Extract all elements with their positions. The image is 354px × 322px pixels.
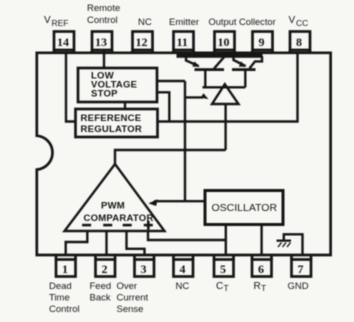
pin 3 bbox=[135, 254, 155, 277]
pin 12 bbox=[133, 32, 153, 54]
svg-text:Over: Over bbox=[117, 281, 138, 292]
svg-text:Dead: Dead bbox=[49, 281, 72, 292]
pin 5 bbox=[214, 254, 234, 277]
svg-text:Time: Time bbox=[49, 293, 70, 304]
svg-text:2: 2 bbox=[102, 262, 108, 276]
svg-text:11: 11 bbox=[177, 35, 188, 49]
pin 4 bbox=[174, 254, 194, 277]
svg-text:10: 10 bbox=[218, 35, 230, 49]
wire comparator plus to CT line bbox=[148, 231, 226, 240]
wire comparator output to driver bbox=[115, 150, 226, 165]
wire VCC pin8 to reference bbox=[158, 52, 298, 122]
svg-text:Output Collector: Output Collector bbox=[209, 17, 276, 27]
wire arrow into driver bbox=[185, 93, 209, 99]
pin 7 bbox=[292, 254, 312, 277]
PWM comparator U1 triangle bbox=[65, 164, 165, 231]
svg-text:T: T bbox=[261, 283, 266, 293]
transistor Q2 emitter lead bbox=[234, 55, 247, 67]
minus mark input 3 bbox=[123, 224, 132, 227]
pin 14 bbox=[54, 32, 74, 54]
svg-text:V: V bbox=[289, 15, 296, 26]
wire bases line bbox=[203, 86, 246, 88]
svg-text:Control: Control bbox=[49, 304, 80, 315]
svg-text:NC: NC bbox=[176, 281, 190, 292]
svg-text:NC: NC bbox=[138, 17, 152, 28]
wire LVS out lower bbox=[157, 92, 169, 121]
transistor Q1 emitter lead bbox=[186, 55, 200, 67]
LOW VOLTAGE STOP box U2 bbox=[78, 68, 157, 102]
wire comparator minus1 to pin 1 bbox=[66, 231, 88, 255]
pin 6 bbox=[252, 254, 272, 277]
svg-text:Control: Control bbox=[87, 15, 118, 26]
wire LVS out upper to node bus bbox=[157, 80, 185, 82]
svg-text:Current: Current bbox=[117, 293, 149, 304]
wire driver output up (apex through bases line) bbox=[224, 84, 226, 87]
svg-text:R: R bbox=[254, 281, 261, 292]
svg-text:Emitter: Emitter bbox=[169, 17, 199, 28]
svg-text:14: 14 bbox=[57, 35, 69, 49]
svg-text:9: 9 bbox=[259, 35, 265, 49]
minus mark input 2 bbox=[103, 224, 112, 227]
svg-text:6: 6 bbox=[258, 262, 264, 276]
svg-text:T: T bbox=[224, 283, 229, 293]
driver amplifier U5 triangle bbox=[212, 84, 239, 104]
transistor Q2 base wire down bbox=[244, 71, 246, 88]
OSCILLATOR box U4 bbox=[205, 191, 283, 225]
svg-text:CC: CC bbox=[296, 18, 308, 28]
svg-text:4: 4 bbox=[180, 262, 186, 276]
label CT bbox=[216, 281, 229, 293]
pin 8 bbox=[290, 32, 310, 54]
svg-text:REGULATOR: REGULATOR bbox=[81, 124, 143, 135]
svg-text:3: 3 bbox=[141, 262, 147, 276]
wire pin13 to LVS bbox=[103, 50, 105, 68]
transistor Q2 base bar bbox=[232, 68, 256, 71]
wire pin14 down bbox=[66, 52, 76, 122]
svg-text:Remote: Remote bbox=[87, 3, 120, 14]
wire comparator minus2 to pin 2 bbox=[105, 231, 107, 255]
transistor Q1 collector lead bbox=[214, 56, 225, 69]
wire driver input down bbox=[224, 104, 226, 150]
wire oscillator CT to pin 5 bbox=[225, 225, 227, 256]
label Over Current Sense bbox=[117, 281, 149, 315]
pin 9 bbox=[253, 32, 273, 54]
label Remote Control bbox=[87, 3, 120, 26]
label VREF bbox=[44, 15, 69, 28]
wire LVS to REF REG stub bbox=[124, 102, 126, 109]
svg-text:V: V bbox=[44, 15, 51, 26]
svg-text:7: 7 bbox=[298, 262, 304, 276]
pin 10 bbox=[215, 32, 235, 54]
pin 1 bbox=[56, 254, 76, 277]
transistor Q2 collector lead bbox=[250, 56, 263, 68]
pin 2 bbox=[96, 254, 116, 277]
wire oscillator to comparator with arrow bbox=[148, 199, 205, 206]
svg-text:1: 1 bbox=[62, 262, 68, 276]
wire output rail under pins 11-10-9 bbox=[177, 52, 263, 58]
svg-text:Feed: Feed bbox=[90, 281, 112, 292]
minus mark input 1 bbox=[82, 224, 91, 227]
svg-text:C: C bbox=[216, 281, 223, 292]
svg-text:REFERENCE: REFERENCE bbox=[81, 113, 142, 124]
wire oscillator RT to pin 6 bbox=[260, 225, 262, 256]
svg-text:STOP: STOP bbox=[91, 89, 118, 100]
IC body outline with notch bbox=[37, 53, 331, 255]
svg-text:Back: Back bbox=[90, 293, 111, 304]
svg-text:OSCILLATOR: OSCILLATOR bbox=[212, 202, 278, 214]
label RT bbox=[254, 281, 267, 293]
plus mark input 4 bbox=[144, 221, 153, 230]
svg-text:12: 12 bbox=[136, 35, 148, 49]
label Feed Back bbox=[90, 281, 112, 304]
svg-text:COMPARATOR: COMPARATOR bbox=[84, 213, 154, 224]
svg-text:13: 13 bbox=[95, 35, 107, 49]
svg-text:REF: REF bbox=[52, 18, 69, 28]
svg-text:Sense: Sense bbox=[117, 304, 144, 315]
wire comparator minus3 to pin 3 bbox=[127, 231, 145, 255]
ground symbol bbox=[277, 234, 303, 255]
transistor Q1 base wire down bbox=[204, 71, 206, 88]
label VCC bbox=[289, 15, 309, 28]
svg-text:8: 8 bbox=[296, 35, 302, 49]
pin 13 bbox=[92, 32, 112, 54]
label Dead Time Control bbox=[49, 281, 80, 315]
transistor Q1 base bar bbox=[195, 68, 225, 71]
svg-text:5: 5 bbox=[220, 262, 226, 276]
pin 11 bbox=[174, 32, 194, 54]
wire control bus vertical bbox=[184, 81, 186, 201]
REFERENCE REGULATOR box U3 bbox=[76, 109, 158, 137]
svg-text:GND: GND bbox=[288, 281, 309, 292]
svg-text:PWM: PWM bbox=[101, 201, 125, 212]
